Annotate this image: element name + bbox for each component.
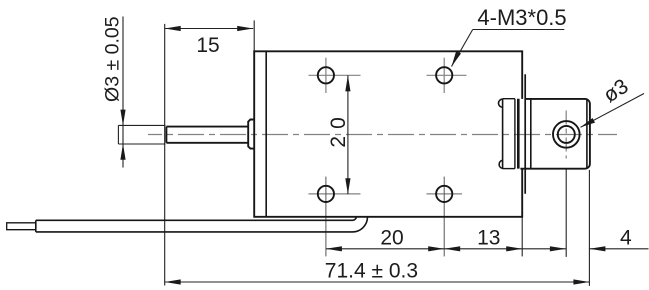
svg-text:20: 20 xyxy=(327,110,350,147)
svg-text:71.4 ± 0.3: 71.4 ± 0.3 xyxy=(325,260,418,283)
svg-text:20: 20 xyxy=(380,226,403,249)
svg-text:4-M3*0.5: 4-M3*0.5 xyxy=(477,5,566,30)
svg-text:4: 4 xyxy=(620,226,632,249)
svg-text:15: 15 xyxy=(196,34,219,57)
svg-text:13: 13 xyxy=(477,226,500,249)
svg-text:Ø3 ± 0.05: Ø3 ± 0.05 xyxy=(101,16,123,102)
